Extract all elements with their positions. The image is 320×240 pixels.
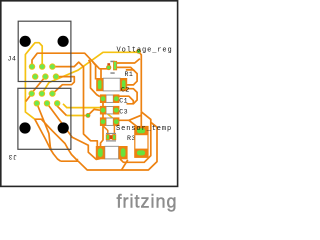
wire orange J4-B3 to J3-T3 [54, 77, 75, 93]
wire orange fan B junction horizontal then diagonal to bus [35, 119, 78, 159]
pads J4 top row [29, 63, 56, 69]
wire orange J3-B3 out right [57, 103, 66, 115]
wire orange outer corner [61, 122, 157, 170]
svg-text:Voltage_reg: Voltage_reg [117, 46, 173, 54]
wire orange C2 right pad to bump2 [116, 96, 133, 104]
pads J3 top row [29, 90, 56, 96]
capacitor C1 [100, 106, 119, 115]
wire orange via down right vertical [139, 52, 142, 112]
svg-text:J3: J3 [8, 153, 17, 160]
wire orange J4-T1 along top to voltage reg pad [32, 53, 109, 69]
svg-text:fritzing: fritzing [117, 192, 178, 212]
via near J3 right [86, 113, 91, 118]
svg-text:C1: C1 [119, 98, 128, 105]
wire orange VReg right pad upper to right vertical [115, 59, 140, 63]
wire orange loop bump2 [127, 89, 138, 104]
wire orange C3 right split b to sensor top [129, 120, 141, 130]
wire orange chain C2L-C1L-C3L down to bottom left pad [101, 99, 104, 148]
wire orange fan A junction to bottom bus [35, 119, 61, 161]
svg-text:J4: J4 [8, 56, 17, 63]
wire orange J4-T3 over yellow then down V1 to R2 left pad [52, 62, 97, 146]
wire orange loop bump1 [126, 70, 137, 85]
sensor U2 (vertical) [135, 127, 148, 158]
wire orange J4-B2 to J3-T1 [32, 77, 46, 94]
resistor R2 (bottom horizontal) [96, 146, 128, 159]
wire orange V2a from diag into R1 left pad [92, 61, 95, 79]
svg-text:R1: R1 [125, 71, 134, 78]
voltage regulator U1 [106, 61, 117, 74]
wire yellow lower horizontal to via [67, 115, 88, 117]
wire orange fan F4 J3-B2 to sensor left [47, 103, 100, 159]
hole J3-1 [19, 122, 30, 133]
connector J3 [18, 88, 71, 149]
wire orange branch bus to R2 right pad corner [122, 160, 128, 170]
svg-text:C2: C2 [121, 86, 130, 93]
hole J4-2 [58, 36, 69, 47]
wire yellow long diagonal J3-T2 to via top [42, 52, 137, 93]
wire orange VReg right pad lower to bump1 [115, 67, 134, 71]
wire orange V2 knot down into C2 left pad [89, 60, 100, 97]
wire orange right vertical to inner corner [121, 112, 151, 163]
svg-text:Sensor_temp: Sensor_temp [116, 125, 172, 133]
hole J4-1 [20, 36, 31, 47]
resistor R1 [96, 78, 127, 91]
wire yellow upper horizontal to C3 right [63, 104, 116, 122]
board outline frame [1, 1, 178, 187]
wire orange C3 right split a [116, 115, 141, 121]
svg-text:C3: C3 [119, 109, 128, 116]
hole J3-2 [58, 122, 69, 133]
wire orange R3 right up [114, 124, 116, 137]
wire orange fan F1 J3-T1 down left side [26, 94, 32, 102]
pads J4 bottom row [32, 73, 59, 79]
capacitor C2 [100, 94, 119, 103]
via near voltage_reg [136, 49, 141, 54]
wire orange right vertical to sensor top pad [140, 112, 142, 127]
capacitor C3 [100, 117, 119, 126]
resistor R3 [106, 133, 116, 142]
wire orange fan F2 J3-B1 steep merge [37, 103, 52, 151]
connector J4 [18, 21, 71, 81]
wire orange R3 left up [103, 126, 108, 137]
wire yellow J4 circle1 to pad T2 [25, 43, 42, 120]
wire orange via diag to C1 left pad [88, 109, 100, 115]
pads J3 bottom row [34, 100, 61, 106]
wire orange VReg horizontal down to R1 left pad [100, 69, 102, 80]
